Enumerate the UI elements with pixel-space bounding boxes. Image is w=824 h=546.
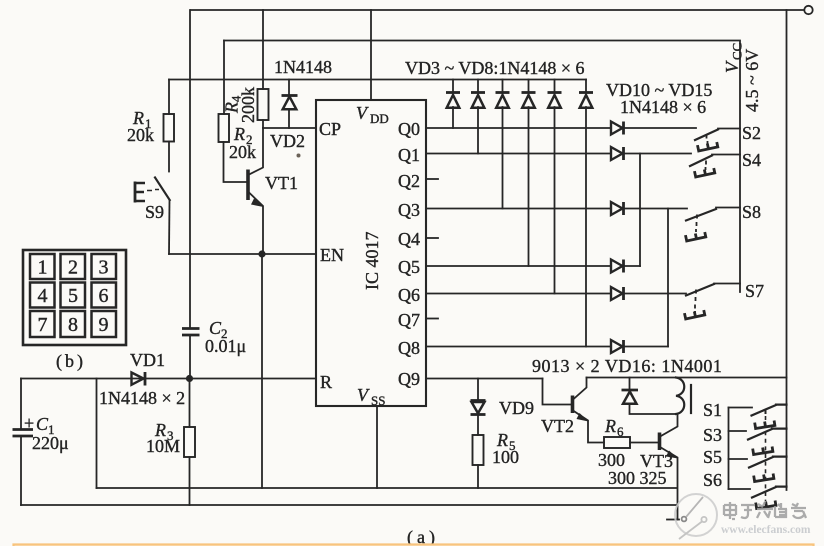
- svg-text:S8: S8: [742, 202, 761, 222]
- svg-text:S1: S1: [703, 400, 722, 420]
- svg-text:VD9: VD9: [499, 398, 534, 418]
- svg-text:Q5: Q5: [398, 257, 420, 277]
- svg-text:8: 8: [68, 314, 78, 336]
- svg-text:VD2: VD2: [270, 131, 305, 151]
- svg-text:20k: 20k: [229, 142, 256, 162]
- svg-text:VD3 ~ VD8:1N4148 × 6: VD3 ~ VD8:1N4148 × 6: [405, 58, 585, 78]
- svg-text:S7: S7: [745, 281, 764, 301]
- svg-text:0.01μ: 0.01μ: [205, 336, 246, 356]
- svg-text:(a): (a): [407, 527, 439, 546]
- svg-text:R: R: [604, 416, 616, 436]
- svg-text:20k: 20k: [127, 125, 154, 145]
- svg-text:300 325: 300 325: [608, 468, 667, 488]
- svg-text:Q7: Q7: [398, 310, 420, 330]
- svg-text:+: +: [24, 413, 34, 433]
- svg-text:200k: 200k: [238, 87, 258, 123]
- svg-text:www.elecfans.com: www.elecfans.com: [721, 524, 811, 536]
- svg-text:6: 6: [99, 285, 109, 307]
- svg-text:IC 4017: IC 4017: [362, 232, 382, 291]
- svg-text:5: 5: [68, 285, 78, 307]
- svg-text:1N4148 × 2: 1N4148 × 2: [99, 388, 185, 408]
- svg-text:Q6: Q6: [398, 285, 420, 305]
- svg-text:S9: S9: [145, 202, 164, 222]
- svg-text:Q3: Q3: [398, 200, 420, 220]
- svg-text:S6: S6: [703, 470, 722, 490]
- svg-text:Q0: Q0: [398, 119, 420, 139]
- svg-text:Q2: Q2: [398, 171, 420, 191]
- svg-text:Q8: Q8: [398, 338, 420, 358]
- svg-text:Q9: Q9: [398, 369, 420, 389]
- svg-text:SS: SS: [371, 393, 385, 408]
- svg-text:6: 6: [617, 424, 624, 439]
- svg-text:VT1: VT1: [265, 173, 298, 193]
- svg-text:DD: DD: [370, 111, 389, 126]
- svg-text:(b): (b): [56, 351, 86, 372]
- svg-text:10M: 10M: [146, 436, 180, 456]
- svg-text:S4: S4: [742, 150, 761, 170]
- svg-text:S2: S2: [742, 123, 761, 143]
- svg-text:S3: S3: [703, 425, 722, 445]
- svg-text:9: 9: [99, 314, 109, 336]
- svg-text:EN: EN: [320, 245, 344, 265]
- svg-text:4: 4: [38, 285, 48, 307]
- svg-text:2: 2: [68, 257, 78, 279]
- svg-text:R: R: [233, 124, 245, 144]
- svg-text:VD1: VD1: [130, 350, 165, 370]
- svg-text:1: 1: [38, 257, 48, 279]
- svg-text:300: 300: [598, 450, 625, 470]
- svg-text:Q1: Q1: [398, 145, 420, 165]
- svg-text:1N4148 × 6: 1N4148 × 6: [620, 97, 706, 117]
- svg-text:9013 × 2 VD16: 1N4001: 9013 × 2 VD16: 1N4001: [532, 356, 722, 376]
- svg-text:220μ: 220μ: [32, 433, 69, 453]
- svg-text:VT2: VT2: [541, 416, 574, 436]
- svg-text:1N4148: 1N4148: [274, 57, 332, 77]
- svg-text:3: 3: [99, 257, 109, 279]
- svg-text:R: R: [320, 372, 332, 392]
- svg-text:CP: CP: [319, 119, 341, 139]
- svg-text:7: 7: [38, 314, 48, 336]
- svg-text:S5: S5: [703, 447, 722, 467]
- svg-text:4.5 ~ 6V: 4.5 ~ 6V: [742, 49, 762, 112]
- svg-text:100: 100: [492, 447, 519, 467]
- svg-text:Q4: Q4: [398, 229, 420, 249]
